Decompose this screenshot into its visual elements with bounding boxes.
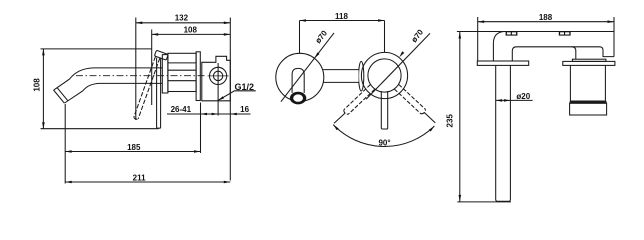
svg-text:118: 118 bbox=[335, 12, 348, 21]
dimension 118 bbox=[300, 20, 385, 22]
spout nose slot bbox=[292, 68, 304, 93]
handle stick solid bbox=[381, 91, 387, 129]
arc arrowheads bbox=[333, 125, 338, 131]
mounting clip pair 1 bbox=[506, 31, 518, 35]
body rib lines bbox=[168, 62, 196, 64]
axis extension left bbox=[334, 113, 345, 124]
handle stick dashed left bbox=[348, 89, 374, 114]
spout bottom outline bbox=[65, 83, 163, 103]
svg-text:132: 132 bbox=[175, 14, 189, 23]
cap top thick line bbox=[570, 101, 607, 103]
handle stick dashed right bbox=[394, 89, 421, 114]
left escutcheon circle bbox=[276, 53, 324, 101]
svg-text:188: 188 bbox=[539, 13, 553, 22]
extension line bottom of lever bbox=[41, 128, 159, 130]
axis extension right bbox=[424, 112, 435, 123]
lever knob bbox=[154, 50, 168, 60]
valve cylinder bbox=[569, 65, 571, 101]
extension lines 188 bbox=[477, 17, 479, 32]
dimension 132 bbox=[136, 22, 231, 24]
svg-text:ø20: ø20 bbox=[516, 92, 530, 101]
body top edge bbox=[478, 31, 614, 33]
svg-text:26-41: 26-41 bbox=[171, 105, 192, 114]
svg-text:185: 185 bbox=[127, 143, 141, 152]
svg-text:211: 211 bbox=[133, 174, 146, 183]
dimension diameter 20 bbox=[496, 99, 533, 101]
spout tip face bbox=[54, 90, 65, 103]
mounting clip pair 2 bbox=[559, 31, 571, 35]
right flange lower plate bbox=[563, 61, 615, 65]
G1/2 leader and label bbox=[218, 91, 256, 101]
in-wall block with G1/2 nipple bbox=[202, 56, 231, 101]
dimension 188 bbox=[478, 21, 614, 23]
lever stick solid vertical bbox=[157, 58, 161, 128]
handle boss circle bbox=[368, 59, 401, 92]
G1/2 port circle outer bbox=[210, 67, 227, 84]
bonnet tab ellipse bbox=[359, 61, 364, 91]
leader diameter70 right bbox=[366, 33, 430, 99]
spout tube below flange bbox=[496, 65, 511, 201]
svg-text:16: 16 bbox=[240, 105, 249, 114]
dimension 108 top bbox=[152, 33, 231, 35]
svg-text:108: 108 bbox=[32, 78, 41, 92]
extension line lever tip bbox=[135, 18, 137, 121]
tube inner edge in wall bbox=[517, 47, 615, 57]
port vertical centerline bbox=[217, 63, 219, 116]
spout top outline bbox=[54, 68, 162, 90]
extension line right x230 bbox=[229, 18, 231, 181]
label 90 deg bbox=[376, 137, 394, 146]
leader diameter70 left bbox=[281, 33, 334, 102]
dimension 108 left vertical bbox=[42, 49, 44, 129]
escutcheon plate side view bbox=[196, 52, 200, 101]
extension 235 top bbox=[457, 31, 478, 33]
left flange plate bbox=[477, 61, 528, 65]
extension line top of knob bbox=[41, 48, 153, 50]
port horizontal centerline bbox=[208, 75, 229, 77]
svg-text:90°: 90° bbox=[378, 138, 390, 147]
G1/2 port circle inner bbox=[213, 71, 222, 80]
extension line spout tip bbox=[64, 104, 66, 184]
dimension 26-41 and 16 bbox=[167, 113, 251, 115]
lever stick dashed tilted bbox=[134, 57, 156, 118]
dimension 185 bbox=[65, 151, 200, 153]
spout centerline dashed bbox=[76, 75, 206, 77]
dimension 211 bbox=[65, 181, 230, 183]
spout tip inner line bbox=[57, 88, 68, 101]
svg-text:G1/2: G1/2 bbox=[235, 82, 255, 92]
extension lines 118 bbox=[299, 21, 301, 54]
outlet ring filled bbox=[290, 92, 306, 105]
extension line wall face bbox=[200, 103, 202, 154]
right flange upper plate bbox=[572, 59, 606, 61]
connecting bar bbox=[323, 70, 359, 82]
body right edge bbox=[613, 32, 615, 57]
extension 235 bottom bbox=[457, 201, 511, 203]
right escutcheon circle bbox=[361, 52, 407, 98]
body cylinder bbox=[168, 53, 196, 91]
svg-text:108: 108 bbox=[184, 26, 198, 35]
90 degree swing arc bbox=[333, 125, 434, 147]
outlet ring hole bbox=[293, 94, 303, 101]
end cap bbox=[570, 103, 607, 115]
bonnet front ring bbox=[162, 55, 168, 93]
svg-text:235: 235 bbox=[445, 114, 454, 128]
valve port branch bbox=[572, 47, 576, 59]
tube bend left edge bbox=[493, 32, 505, 62]
dimension 235 bbox=[459, 32, 461, 202]
tube bend right edge bbox=[512, 47, 516, 61]
body left edge bbox=[477, 32, 479, 62]
svg-text:ø70: ø70 bbox=[410, 27, 426, 44]
extension line x151 bbox=[151, 30, 153, 106]
